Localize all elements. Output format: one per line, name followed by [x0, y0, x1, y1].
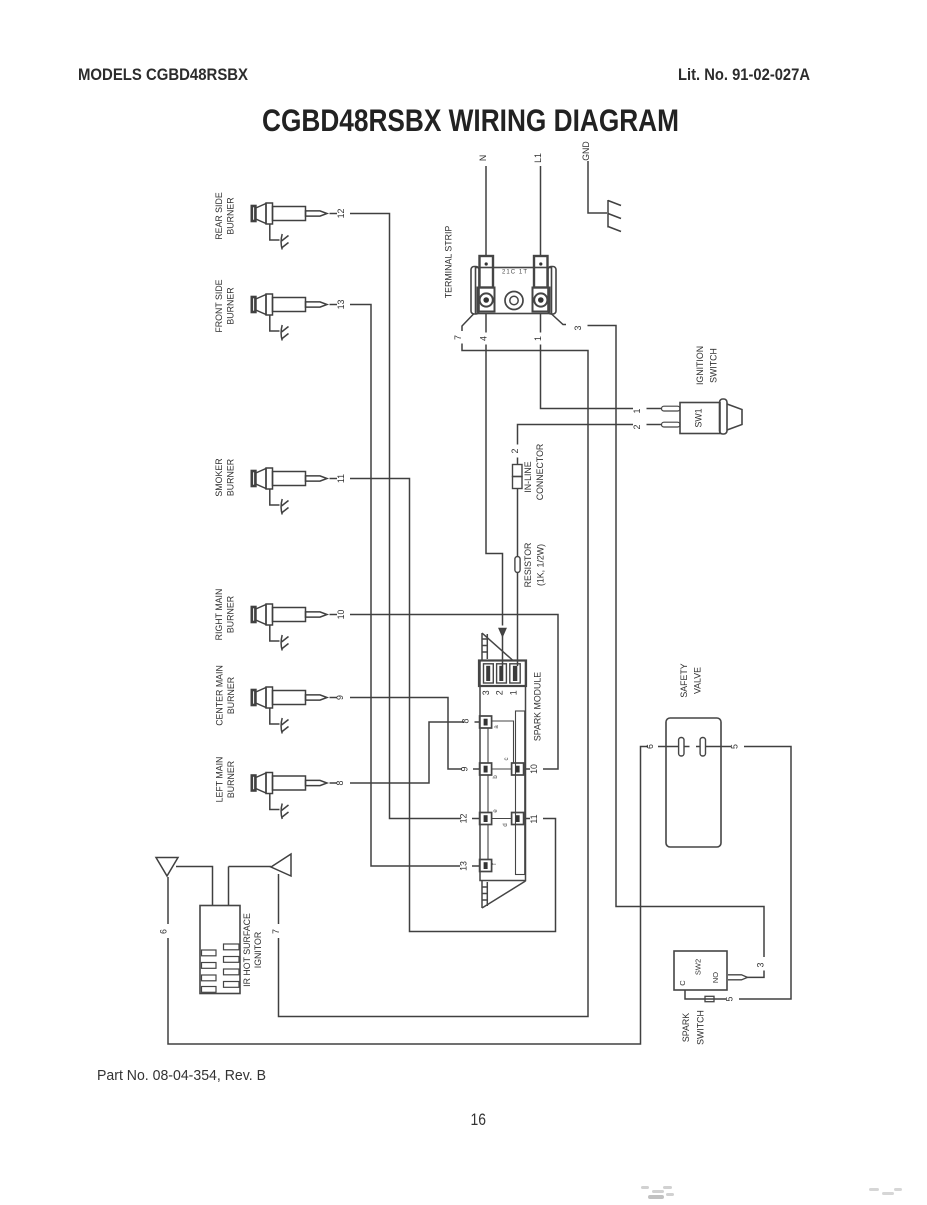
svg-text:d: d	[503, 823, 509, 826]
svg-text:SWITCH: SWITCH	[709, 348, 719, 383]
svg-text:2: 2	[632, 424, 642, 429]
svg-text:L1: L1	[533, 153, 543, 163]
svg-text:11: 11	[529, 814, 539, 823]
svg-text:CONNECTOR: CONNECTOR	[535, 444, 545, 501]
svg-text:3: 3	[573, 325, 583, 330]
svg-text:c: c	[504, 758, 510, 761]
svg-text:LEFT MAIN: LEFT MAIN	[215, 757, 225, 803]
svg-text:3: 3	[756, 962, 766, 967]
svg-text:SPARK MODULE: SPARK MODULE	[533, 672, 543, 741]
svg-text:6: 6	[159, 929, 169, 934]
svg-text:TERMINAL STRIP: TERMINAL STRIP	[444, 226, 454, 299]
svg-text:1: 1	[632, 408, 642, 413]
svg-text:12: 12	[459, 814, 469, 824]
svg-text:5: 5	[725, 996, 735, 1001]
svg-text:CENTER MAIN: CENTER MAIN	[215, 665, 225, 726]
svg-text:BURNER: BURNER	[226, 596, 236, 633]
svg-text:1: 1	[508, 690, 518, 695]
svg-text:SW2: SW2	[694, 959, 703, 975]
svg-text:3: 3	[481, 690, 491, 695]
svg-text:7: 7	[453, 335, 463, 340]
svg-text:BURNER: BURNER	[226, 459, 236, 496]
svg-text:Lit. No. 91-02-027A: Lit. No. 91-02-027A	[678, 65, 810, 84]
svg-text:SWITCH: SWITCH	[696, 1010, 706, 1045]
svg-text:12: 12	[336, 209, 346, 219]
svg-text:11: 11	[336, 474, 346, 483]
svg-text:10: 10	[529, 764, 539, 774]
svg-text:8: 8	[335, 780, 345, 785]
svg-text:NO: NO	[711, 972, 720, 983]
svg-text:9: 9	[335, 695, 345, 700]
svg-text:N: N	[478, 155, 488, 161]
svg-text:SAFETY: SAFETY	[679, 663, 689, 697]
svg-text:BURNER: BURNER	[226, 761, 236, 798]
svg-text:4: 4	[479, 336, 489, 341]
svg-text:SPARK: SPARK	[681, 1013, 691, 1042]
svg-text:IN-LINE: IN-LINE	[523, 461, 533, 492]
svg-text:6: 6	[645, 744, 655, 749]
svg-text:CGBD48RSBX WIRING DIAGRAM: CGBD48RSBX WIRING DIAGRAM	[262, 102, 679, 138]
svg-text:5: 5	[730, 744, 740, 749]
svg-text:21C 1T: 21C 1T	[502, 270, 527, 276]
svg-text:1: 1	[533, 336, 543, 341]
svg-text:SMOKER: SMOKER	[214, 458, 224, 496]
svg-text:9: 9	[460, 766, 470, 771]
svg-text:FRONT SIDE: FRONT SIDE	[214, 279, 224, 332]
svg-text:(1K, 1/2W): (1K, 1/2W)	[536, 544, 546, 586]
svg-text:8: 8	[461, 718, 471, 723]
svg-text:RESISTOR: RESISTOR	[523, 543, 533, 588]
svg-text:BURNER: BURNER	[226, 677, 236, 714]
svg-text:13: 13	[336, 300, 346, 310]
svg-text:16: 16	[471, 1110, 487, 1129]
svg-text:MODELS CGBD48RSBX: MODELS CGBD48RSBX	[78, 65, 249, 84]
svg-text:7: 7	[271, 929, 281, 934]
svg-text:2: 2	[510, 448, 520, 453]
svg-text:IGNITOR: IGNITOR	[253, 932, 263, 969]
svg-text:SW1: SW1	[694, 408, 704, 427]
svg-text:IR HOT SURFACE: IR HOT SURFACE	[242, 913, 252, 987]
svg-text:VALVE: VALVE	[693, 667, 703, 694]
svg-text:Part No. 08-04-354, Rev. B: Part No. 08-04-354, Rev. B	[97, 1067, 266, 1084]
svg-text:REAR SIDE: REAR SIDE	[214, 192, 224, 240]
svg-text:C: C	[678, 980, 687, 986]
svg-text:BURNER: BURNER	[226, 197, 236, 234]
svg-text:RIGHT MAIN: RIGHT MAIN	[214, 589, 224, 641]
svg-text:IGNITION: IGNITION	[695, 346, 705, 385]
svg-text:10: 10	[336, 610, 346, 620]
svg-text:BURNER: BURNER	[226, 287, 236, 324]
svg-text:2: 2	[494, 690, 504, 695]
svg-text:13: 13	[459, 861, 469, 871]
svg-text:GND: GND	[581, 141, 591, 161]
